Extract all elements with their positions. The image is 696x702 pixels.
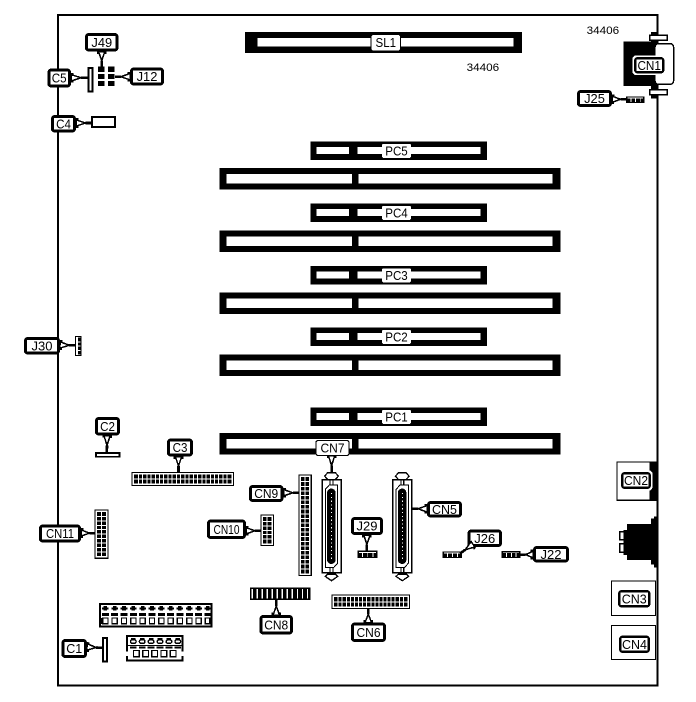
- connector CN2 body: [617, 462, 658, 500]
- callout CN9: [250, 486, 282, 501]
- capacitor C5 body: [88, 67, 94, 93]
- connector CN6 pin grid: [332, 595, 410, 609]
- connector CN9 pin grid: [299, 475, 311, 576]
- wire leader J12: [115, 72, 130, 82]
- wire leader CN9: [284, 488, 300, 498]
- svg-text:CN10: CN10: [214, 522, 240, 537]
- wire leader CN8: [272, 600, 282, 615]
- callout C2: [96, 418, 118, 434]
- connector CN3 body: [612, 581, 656, 616]
- callout CN1: [633, 56, 667, 76]
- callout C1: [63, 640, 86, 656]
- jumper header J25: [626, 96, 645, 103]
- callout J29: [352, 518, 381, 533]
- svg-text:CN9: CN9: [254, 486, 278, 501]
- svg-text:CN1: CN1: [637, 58, 661, 73]
- jumper header J49 pins: [98, 67, 105, 87]
- slot SL1: [245, 32, 522, 53]
- svg-text:CN8: CN8: [264, 617, 288, 632]
- callout C5: [49, 70, 70, 86]
- svg-text:PC4: PC4: [385, 205, 408, 220]
- slot PC1: [311, 408, 488, 427]
- callout CN8: [261, 616, 292, 633]
- callout J49: [86, 34, 117, 50]
- connector CN1 screw posts: [650, 35, 668, 94]
- wire leader J22: [521, 550, 534, 560]
- wire leader J30: [60, 340, 76, 350]
- callout CN11: [40, 526, 79, 541]
- jumper header J30 pins: [75, 337, 81, 356]
- svg-text:CN6: CN6: [357, 625, 381, 640]
- wire leader J29: [362, 535, 372, 551]
- connector CN10 pin grid: [261, 515, 273, 546]
- callout C4: [52, 116, 74, 131]
- callout CN10: [208, 521, 244, 538]
- wire leader C1: [87, 642, 103, 652]
- slot PC4: [311, 204, 488, 223]
- callout CN2: [620, 471, 653, 491]
- svg-text:CN11: CN11: [46, 526, 74, 541]
- jumper header J12 pins: [108, 67, 115, 87]
- svg-text:J30: J30: [32, 338, 53, 353]
- svg-text:J22: J22: [541, 547, 562, 562]
- connector C3 pin grid: [132, 473, 234, 486]
- svg-text:34406: 34406: [467, 62, 500, 74]
- connector CN1 D-shell: [655, 44, 674, 85]
- slot PC2: [311, 328, 488, 347]
- svg-text:PC3: PC3: [385, 268, 408, 283]
- svg-text:C4: C4: [56, 116, 71, 131]
- svg-text:C1: C1: [66, 641, 82, 656]
- callout CN3: [617, 589, 653, 610]
- wire leader CN7: [327, 456, 337, 473]
- svg-text:J12: J12: [137, 69, 158, 84]
- connector CN11 pin grid: [95, 510, 108, 558]
- wire leader C4: [76, 118, 92, 128]
- wire leader J25: [612, 94, 626, 104]
- connector CN1 body: [624, 32, 658, 99]
- connector P2 aux power: [126, 636, 183, 661]
- capacitor C2 body: [95, 452, 121, 458]
- connector audio jack stack: [620, 517, 658, 568]
- jumper header J22: [502, 551, 521, 558]
- slot ISA1: [220, 168, 561, 190]
- connector CN7 label: [316, 441, 349, 456]
- svg-text:SL1: SL1: [376, 35, 397, 50]
- svg-text:PC2: PC2: [385, 329, 408, 344]
- wire leader C2: [102, 435, 112, 452]
- connector CN7 top keying: [325, 473, 339, 480]
- callout J26: [469, 531, 501, 546]
- callout CN5: [428, 502, 460, 517]
- connector CN8 pin strip: [250, 588, 311, 600]
- callout J12: [131, 69, 162, 84]
- slot PC3: [311, 266, 488, 285]
- svg-text:J49: J49: [91, 35, 112, 50]
- svg-text:PC1: PC1: [385, 409, 408, 424]
- connector CN7 bottom keying: [325, 574, 338, 581]
- capacitor C4 body: [91, 116, 116, 128]
- capacitor C1 body: [102, 637, 108, 663]
- slot ISA2: [220, 231, 561, 253]
- svg-text:CN3: CN3: [622, 591, 647, 606]
- connector P1 AT power: [100, 604, 212, 627]
- jumper header J26: [443, 551, 463, 558]
- svg-text:PC5: PC5: [385, 143, 408, 158]
- slot ISA4: [220, 355, 561, 377]
- svg-text:CN5: CN5: [432, 502, 457, 517]
- connector CN7 body: [322, 479, 341, 574]
- callout J22: [534, 547, 567, 562]
- slot ISA5: [220, 433, 561, 455]
- wire leader CN5: [412, 504, 427, 514]
- callout CN4: [618, 634, 652, 655]
- callout CN6: [352, 624, 384, 641]
- wire leader J49: [97, 52, 107, 67]
- wire leader CN11: [81, 528, 95, 538]
- svg-text:C5: C5: [52, 71, 67, 86]
- svg-text:J29: J29: [357, 519, 378, 534]
- svg-text:J25: J25: [584, 91, 605, 106]
- callout C3: [168, 440, 191, 455]
- svg-text:J26: J26: [474, 531, 495, 546]
- wire leader CN6: [364, 609, 374, 623]
- wire leader C5: [71, 73, 88, 83]
- svg-text:CN7: CN7: [321, 441, 345, 456]
- svg-text:CN2: CN2: [624, 473, 648, 488]
- wire leader J26: [460, 540, 476, 553]
- svg-text:CN4: CN4: [622, 637, 647, 652]
- slot ISA3: [220, 293, 561, 315]
- wire leader C3: [174, 457, 184, 473]
- jumper header J29: [357, 551, 377, 558]
- svg-text:C2: C2: [100, 419, 115, 434]
- connector CN4 body: [612, 626, 656, 660]
- svg-text:C3: C3: [173, 440, 188, 455]
- callout J30: [25, 338, 58, 353]
- callout J25: [578, 91, 610, 106]
- connector CN5 top keying: [396, 473, 410, 480]
- wire leader CN10: [246, 526, 261, 536]
- connector CN5 bottom keying: [396, 574, 409, 581]
- slot PC5: [311, 142, 488, 161]
- svg-text:34406: 34406: [587, 25, 620, 37]
- connector CN5 body: [393, 479, 412, 574]
